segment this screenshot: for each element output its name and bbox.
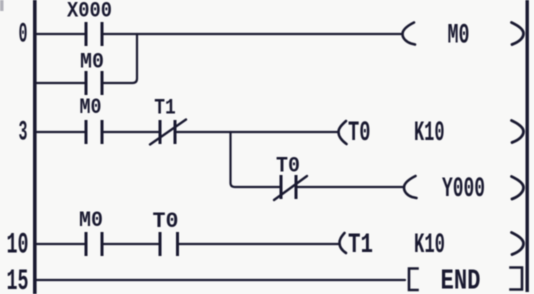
contact T1 NC rung3: [159, 120, 177, 144]
contact M0 parallel: [85, 71, 104, 95]
coil T1 close paren: [512, 233, 524, 255]
wire rung10 between M0 and T0: [104, 243, 159, 245]
svg-text:END: END: [441, 265, 481, 294]
svg-text:Y000: Y000: [442, 174, 485, 205]
svg-text:K10: K10: [414, 230, 445, 261]
wire Y000 row to coil: [298, 186, 404, 188]
wire rung3 left: [36, 131, 85, 133]
contact T0 rung10: [159, 232, 180, 256]
coil T0 close paren: [512, 121, 524, 143]
svg-text:T0: T0: [348, 118, 371, 149]
left power rail: [33, 0, 37, 294]
wire rung3 between M0 and T1: [104, 131, 159, 133]
wire branch drop to Y000 row: [231, 132, 280, 187]
svg-text:15: 15: [7, 264, 29, 294]
coil T1 open paren: [340, 233, 347, 253]
svg-text:0: 0: [19, 20, 28, 51]
wire rung3 to coil T0: [177, 131, 338, 133]
scan artifact top-left: [0, 0, 4, 11]
svg-text:M0: M0: [79, 207, 103, 233]
slash T1: [150, 120, 186, 145]
contact M0 rung10: [85, 232, 104, 256]
coil Y000 close paren: [512, 177, 524, 200]
coil Y000 open paren: [404, 176, 417, 198]
wire rung0 left: [36, 33, 85, 35]
svg-text:T1: T1: [154, 95, 176, 121]
svg-text:10: 10: [7, 228, 29, 262]
svg-text:T0: T0: [276, 153, 300, 179]
svg-text:X000: X000: [67, 0, 112, 24]
END open bracket: [409, 269, 418, 291]
coil M0 open paren: [403, 23, 416, 45]
coil T0 open paren: [339, 121, 347, 144]
contact X000: [85, 22, 104, 46]
contact T0 NC branch: [280, 175, 298, 199]
coil M0 close paren: [512, 23, 524, 45]
svg-text:M0: M0: [80, 94, 102, 120]
wire parallel branch M0 left: [36, 82, 85, 84]
svg-text:T0: T0: [153, 208, 179, 234]
wire rung0 middle to coil: [104, 33, 403, 35]
svg-text:K10: K10: [414, 118, 445, 149]
svg-text:M0: M0: [80, 49, 104, 75]
slash T0: [274, 176, 307, 200]
svg-text:3: 3: [19, 118, 28, 149]
wire parallel branch M0 right + riser: [104, 34, 138, 83]
contact M0 rung3: [85, 120, 104, 144]
END close bracket: [511, 268, 523, 290]
svg-text:M0: M0: [448, 21, 470, 52]
wire rung15 to END: [36, 279, 405, 281]
svg-text:T1: T1: [348, 230, 373, 261]
wire rung10 to coil T1: [179, 243, 339, 245]
right power rail: [526, 0, 529, 292]
wire rung10 left: [36, 243, 85, 245]
